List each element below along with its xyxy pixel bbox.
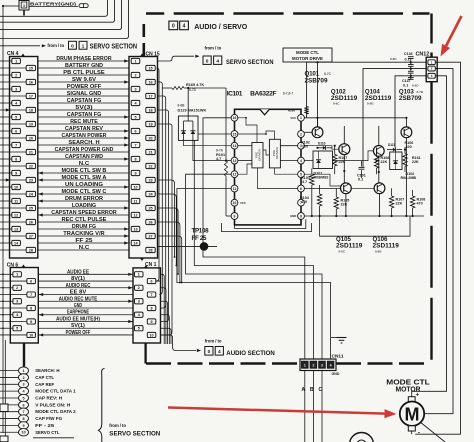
svg-text:SEARCH: H: SEARCH: H (35, 368, 60, 374)
CN6 pin 10 (27, 332, 36, 337)
svg-text:3: 3 (23, 4, 25, 8)
left edge bus wire (2, 6, 4, 433)
CN6 pin 7 (27, 292, 36, 297)
CN15 pin 5 (131, 114, 140, 119)
wire audio row 6: GND (38, 307, 133, 309)
svg-text:13: 13 (233, 159, 237, 163)
svg-text:20: 20 (29, 136, 33, 140)
wire row 26: TRACKING V/R (38, 235, 129, 237)
CN4 pin 13 (12, 226, 21, 231)
svg-text:26: 26 (148, 220, 152, 224)
svg-text:22: 22 (148, 164, 152, 168)
wire row 3: PB CTL PULSE (38, 74, 129, 76)
svg-text:17: 17 (148, 94, 152, 98)
node 9: FF - 25 (0, 424, 19, 426)
output wires to CN12 (307, 62, 428, 118)
svg-text:0: 0 (71, 43, 74, 49)
svg-text:1: 1 (16, 273, 18, 277)
gnd loop wires below U101 (235, 219, 306, 228)
motor M (408, 397, 415, 402)
CN15 pin 7 (131, 142, 140, 147)
svg-text:22K: 22K (339, 160, 346, 164)
CN15 pin 27 (146, 233, 155, 238)
svg-text:DRUM PHASE ERROR: DRUM PHASE ERROR (56, 56, 111, 62)
wire row 8: 5V(3) (38, 109, 129, 111)
svg-text:C: C (319, 387, 323, 393)
svg-text:7: 7 (151, 293, 153, 297)
section label 0 4 AUDIO / SERVO (169, 21, 178, 30)
svg-text:8-8B: 8-8B (367, 102, 374, 106)
svg-text:8-7,8-7: 8-7,8-7 (283, 92, 293, 96)
svg-text:16: 16 (148, 80, 152, 84)
svg-text:5V(1): 5V(1) (71, 323, 85, 329)
vertical Q104-Q106 column (378, 156, 380, 184)
corner pass-through wires (top edge to left edge) (0, 0, 108, 16)
diode block D101 (313, 151, 333, 169)
node 10: SERVO CTL (0, 431, 19, 433)
svg-text:22K: 22K (396, 202, 403, 206)
svg-text:10: 10 (133, 185, 137, 189)
svg-text:0: 0 (172, 24, 175, 30)
svg-text:12: 12 (133, 213, 137, 217)
wire audio row 7: EARPHONE (38, 314, 133, 316)
svg-text:16: 16 (233, 116, 237, 120)
wire to audio section arrow (161, 335, 197, 351)
svg-text:22K: 22K (412, 160, 419, 164)
section border dashed vertical CN15 (143, 24, 146, 57)
svg-text:19: 19 (29, 122, 33, 126)
CN1 pin 10 (147, 332, 156, 337)
U101 pin 3 (298, 142, 305, 149)
svg-text:9: 9 (134, 171, 136, 175)
CN15 pin 10 (131, 184, 140, 189)
wire row 12: CAPSTAN POWER (38, 137, 129, 139)
svg-text:REC MUTE: REC MUTE (70, 119, 98, 125)
CN15 pin 23 (146, 177, 155, 182)
section border dashed bottom (146, 362, 300, 364)
CN15 pin 26 (146, 219, 155, 224)
CN15 pin 6 (131, 128, 140, 133)
capacitor C101 0.1 (361, 161, 363, 167)
svg-text:26: 26 (29, 220, 33, 224)
svg-text:7: 7 (30, 293, 32, 297)
svg-text:18: 18 (148, 108, 152, 112)
CN4 pin 15 (26, 65, 35, 70)
transistor Q104 (373, 146, 384, 157)
wire audio row 9: 5V(1) (38, 327, 133, 329)
wire row 10: REC MUTE (38, 123, 129, 125)
node 3: CAP REF (0, 383, 19, 385)
svg-text:FF 25: FF 25 (75, 238, 92, 244)
svg-text:8: 8 (134, 157, 136, 161)
wire row 4: SW 9.6V (38, 81, 129, 83)
U101 pre-driver block 1 (252, 143, 263, 168)
svg-text:AUDIO REC: AUDIO REC (66, 283, 91, 289)
resistor R167 22K (333, 154, 337, 166)
svg-text:28: 28 (29, 248, 33, 252)
U101 pin 15 (231, 131, 238, 138)
svg-text:GND: GND (332, 372, 340, 376)
wire row 1: DRUM PHASE ERROR (38, 60, 129, 62)
svg-text:MODE CTL: MODE CTL (296, 50, 319, 55)
gnd loop wire below transistor stage (320, 216, 410, 236)
CN1 pin 6 (147, 278, 156, 283)
svg-text:19: 19 (148, 122, 152, 126)
svg-text:DRIVER: DRIVER (275, 146, 279, 158)
resistor R161 22K (403, 154, 407, 167)
svg-text:2: 2 (134, 73, 136, 77)
CN6 pin 4 (13, 312, 22, 317)
svg-text:VCC: VCC (240, 201, 246, 205)
CN4 pin 2 (12, 72, 21, 77)
svg-text:100: 100 (406, 145, 412, 149)
svg-text:10: 10 (233, 201, 237, 205)
CN15 pin 4 (131, 100, 140, 105)
svg-text:4: 4 (183, 24, 186, 30)
svg-text:23: 23 (29, 178, 33, 182)
left edge bus wire 2 (4, 340, 6, 442)
svg-text:SERVO SECTION: SERVO SECTION (226, 59, 274, 66)
svg-text:AUDIO / SERVO: AUDIO / SERVO (194, 22, 247, 31)
resistor R105 22K (334, 197, 338, 209)
wire audio row 10: POWER OFF (38, 334, 133, 336)
svg-text:3: 3 (16, 300, 18, 304)
bus curves from CN1 left-row pins (161, 274, 165, 344)
resistor R107 22K (389, 196, 393, 208)
wire battery gnd net (3, 5, 19, 7)
resistor R108 470 (410, 196, 414, 208)
svg-text:C137: C137 (402, 79, 411, 83)
transistor Q101 (312, 127, 323, 138)
wire row 11: CAPSTAN REV (38, 130, 129, 132)
svg-text:EARPHONE: EARPHONE (67, 310, 90, 316)
svg-text:CAP CTL: CAP CTL (35, 375, 54, 381)
svg-text:13: 13 (14, 227, 18, 231)
CN15 pin 20 (146, 135, 155, 140)
CN15 pin 21 (146, 149, 155, 154)
CN15 pin 16 (146, 79, 155, 84)
svg-text:15: 15 (148, 66, 152, 70)
svg-text:SERVO SECTION: SERVO SECTION (109, 430, 160, 437)
svg-text:8-8D: 8-8D (390, 57, 397, 61)
wire row 23: CAPSTAN SPEED ERROR (38, 214, 129, 216)
svg-text:IC101: IC101 (227, 90, 243, 97)
svg-text:UN LOADING: UN LOADING (65, 182, 103, 188)
wire audio row 8: AUDIO EE MUTE(H) (38, 320, 133, 322)
svg-text:9: 9 (151, 320, 153, 324)
svg-text:3: 3 (138, 300, 140, 304)
svg-text:CAPSTAN SPEED ERROR: CAPSTAN SPEED ERROR (51, 210, 117, 216)
svg-text:SEARCH. H: SEARCH. H (68, 140, 99, 146)
svg-text:20: 20 (148, 136, 152, 140)
U101 internal wires (238, 118, 257, 143)
diode D111 (387, 149, 393, 151)
svg-text:0.1: 0.1 (403, 84, 408, 88)
CN4 pin 10 (12, 184, 21, 189)
wire audio row 3: AUDIO REC (38, 287, 133, 289)
CN6 pin 3 (13, 299, 22, 304)
node 8: CAP F/W FG (0, 418, 19, 420)
svg-text:VCC: VCC (290, 116, 296, 120)
wire row 25: DRUM FG (38, 228, 129, 230)
svg-text:1: 1 (82, 43, 85, 49)
svg-text:LOADING: LOADING (72, 203, 96, 209)
svg-text:R08/M82: R08/M82 (314, 176, 329, 180)
CN4 pin 19 (26, 121, 35, 126)
CN4 pin 4 (12, 100, 21, 105)
wire row 17: MODE CTL SW B (38, 172, 129, 174)
svg-text:7: 7 (134, 143, 136, 147)
CN1 pin 5 (135, 326, 144, 331)
CN1 pin 9 (147, 319, 156, 324)
svg-text:8-8B: 8-8B (375, 249, 382, 253)
svg-text:4.7: 4.7 (302, 180, 307, 184)
wire row 14: CAPSTAN POWER GND (38, 151, 129, 153)
capstan motor (partial, bottom) (350, 433, 374, 442)
wire row 5: POWER OFF (38, 88, 129, 90)
svg-text:SIGNAL GND: SIGNAL GND (67, 91, 102, 97)
svg-text:CAPSTAN FG: CAPSTAN FG (67, 112, 102, 118)
svg-text:8: 8 (22, 417, 24, 421)
svg-text:1: 1 (300, 116, 302, 120)
wire row 13: SEARCH. H (38, 144, 129, 146)
U101 pin 11 (231, 185, 238, 192)
transistor Q102 (339, 144, 350, 155)
svg-text:BATTERY(GND): BATTERY(GND) (30, 1, 77, 6)
svg-text:AUDIO REC MUTE: AUDIO REC MUTE (59, 296, 98, 302)
connector pin 3 (battery) (19, 1, 29, 11)
svg-text:7: 7 (15, 143, 17, 147)
section border below CN1 (144, 343, 146, 364)
svg-text:-: - (418, 430, 420, 437)
svg-text:11: 11 (233, 187, 237, 191)
wires D129 to IC (184, 140, 232, 145)
svg-text:2SB709: 2SB709 (305, 78, 329, 85)
CN4 pin 1 (12, 58, 21, 63)
svg-text:8-8C: 8-8C (339, 249, 346, 253)
svg-text:21: 21 (29, 150, 33, 154)
svg-text:2SB709: 2SB709 (399, 95, 422, 102)
svg-text:2: 2 (15, 73, 17, 77)
CN6 pin 9 (27, 319, 36, 324)
CN4 pin 3 (12, 86, 21, 91)
svg-text:CAPSTAN FWD: CAPSTAN FWD (65, 154, 103, 160)
svg-text:5: 5 (16, 327, 18, 331)
svg-text:8: 8 (300, 214, 302, 218)
svg-text:CAPSTAN FG: CAPSTAN FG (67, 98, 102, 104)
CN4 pin 9 (12, 170, 21, 175)
svg-text:9: 9 (234, 214, 236, 218)
svg-text:TRACKING V/R: TRACKING V/R (63, 231, 104, 237)
svg-text:22: 22 (29, 164, 33, 168)
svg-text:GND: GND (74, 303, 82, 309)
CN4 pin 7 (12, 142, 21, 147)
svg-text:6: 6 (134, 129, 136, 133)
svg-text:16: 16 (29, 80, 33, 84)
U101 pin 2 (298, 131, 305, 138)
svg-text:1: 1 (304, 364, 306, 368)
svg-text:R08.2MB: R08.2MB (401, 176, 417, 180)
wire audio row 1: AUDIO EE (38, 273, 133, 275)
CN4 pin 17 (26, 93, 35, 98)
svg-text:8-7C: 8-7C (324, 72, 332, 76)
svg-text:D110: D110 (318, 142, 326, 146)
svg-text:DRIVER: DRIVER (257, 148, 261, 160)
svg-text:MODE CTL SW A: MODE CTL SW A (62, 175, 107, 181)
CN15 pin 14 (131, 240, 140, 245)
svg-text:25: 25 (29, 206, 33, 210)
wire row 20: MODE CTL SW C (38, 193, 129, 195)
terminal lug (79, 4, 88, 8)
CN15 pin 15 (146, 65, 155, 70)
U101 pin 13 (231, 157, 238, 164)
svg-text:SERVO SECTION: SERVO SECTION (90, 44, 138, 51)
svg-text:11: 11 (14, 199, 18, 203)
brace (98, 369, 104, 442)
CN15 pin 1 (131, 58, 140, 63)
svg-text:EE 8V: EE 8V (70, 290, 87, 296)
resistor R168 22K (374, 157, 378, 168)
capacitor C136 0.1 (410, 59, 412, 63)
CN15 pin 3 (131, 86, 140, 91)
svg-text:MODE CTL DATA 2: MODE CTL DATA 2 (35, 409, 76, 415)
U101 pin 1 (298, 114, 305, 121)
CN4 pin 20 (26, 135, 35, 140)
svg-text:17: 17 (29, 94, 33, 98)
CN15 pin 25 (146, 205, 155, 210)
U101 pin 16 (231, 114, 238, 121)
svg-text:5: 5 (15, 115, 17, 119)
svg-text:FF 25: FF 25 (192, 235, 208, 242)
transistor Q103 (401, 127, 412, 138)
CN4 pin 28 (26, 247, 35, 252)
svg-text:CAPSTAN POWER GND: CAPSTAN POWER GND (55, 147, 114, 153)
wire audio row 4: EE 8V (38, 294, 133, 296)
svg-text:10: 10 (14, 185, 18, 189)
svg-text:5V(3): 5V(3) (75, 105, 92, 111)
svg-text:4: 4 (218, 349, 221, 355)
vertical Q102-Q105 column (343, 154, 345, 183)
svg-text:MOTOR DRIVE: MOTOR DRIVE (292, 56, 323, 61)
wire motor to bottom edge (421, 423, 445, 442)
CN6 pin 2 (13, 285, 22, 290)
node 4: MODE CTL DATA 1 (0, 390, 19, 392)
svg-text:12: 12 (233, 173, 237, 177)
wire row 2: BATTERY GND (38, 67, 129, 69)
svg-text:0.1: 0.1 (358, 178, 363, 182)
svg-text:22K: 22K (381, 160, 388, 164)
svg-text:1: 1 (138, 273, 140, 277)
svg-text:8-6B: 8-6B (178, 104, 186, 108)
CN4 pin 25 (26, 205, 35, 210)
svg-text:8-8C: 8-8C (333, 102, 340, 106)
svg-text:100: 100 (302, 145, 308, 149)
red arrow to CN12 (446, 16, 461, 46)
svg-text:6: 6 (15, 129, 17, 133)
resistor R166 (304, 107, 308, 115)
wire audio row 5: AUDIO REC MUTE (38, 300, 133, 302)
CN15 pin 22 (146, 163, 155, 168)
svg-text:5: 5 (22, 396, 24, 400)
svg-text:CAP F/W FG: CAP F/W FG (35, 416, 62, 422)
CN6 pin 8 (27, 305, 36, 310)
svg-text:3: 3 (22, 383, 24, 387)
svg-text:8-7B: 8-7B (417, 90, 424, 94)
label from/to 0 1 SERVO SECTION (0, 45, 40, 47)
svg-text:9: 9 (15, 171, 17, 175)
U101 pin 10 (231, 199, 238, 206)
svg-text:4: 4 (330, 364, 332, 368)
svg-text:CAPSTAN POWER: CAPSTAN POWER (62, 133, 107, 139)
section border dashed top (146, 12, 430, 14)
svg-text:R166: R166 (288, 109, 296, 113)
svg-text:8V(1): 8V(1) (71, 276, 85, 282)
svg-text:8: 8 (15, 157, 17, 161)
svg-text:D129 MA151WK: D129 MA151WK (178, 109, 207, 113)
CN1 pin 8 (147, 305, 156, 310)
CN1 pin 2 (135, 285, 144, 290)
svg-text:AUDIO EE: AUDIO EE (67, 269, 90, 275)
svg-text:10: 10 (149, 333, 153, 337)
CN1 pin 3 (135, 299, 144, 304)
wire row 18: MODE CTL SW A (38, 179, 129, 181)
U101 pin 7 (298, 199, 305, 206)
CN4 pin 26 (26, 219, 35, 224)
svg-text:6: 6 (151, 279, 153, 283)
CN15 pin 18 (146, 107, 155, 112)
wire row 9: CAPSTAN FG (38, 116, 129, 118)
diode block D102 (390, 152, 402, 170)
U101 pin 4 (298, 157, 305, 164)
CN4 pin 6 (12, 128, 21, 133)
red arrow to motor (168, 408, 385, 414)
CN15 pin 13 (131, 226, 140, 231)
U101 pin 5 (298, 171, 305, 178)
svg-text:6: 6 (300, 187, 302, 191)
CN4 pin 24 (26, 191, 35, 196)
svg-text:N.C: N.C (79, 161, 89, 167)
svg-text:15: 15 (233, 132, 237, 136)
svg-text:2: 2 (22, 376, 24, 380)
svg-text:4: 4 (300, 159, 302, 163)
svg-text:10: 10 (21, 431, 25, 435)
svg-text:5: 5 (134, 115, 136, 119)
svg-text:5: 5 (138, 327, 140, 331)
svg-text:SERVO CTL: SERVO CTL (35, 430, 59, 436)
CN4 pin 18 (26, 107, 35, 112)
svg-text:13: 13 (133, 227, 137, 231)
U101 pin 12 (231, 171, 238, 178)
small connector fragment left edge (0, 404, 8, 412)
svg-text:18: 18 (29, 108, 33, 112)
U101 pin 8 (298, 213, 305, 220)
wire row 15: CAPSTAN FWD (38, 158, 129, 160)
CN4 pin 27 (26, 233, 35, 238)
node 1: SEARCH: H (0, 370, 19, 372)
wire row 27: FF 25 (38, 242, 129, 244)
base wires (304, 131, 312, 133)
CN4 pin 11 (12, 198, 21, 203)
svg-text:SW 9.6V: SW 9.6V (72, 77, 97, 83)
svg-text:from / to: from / to (205, 46, 222, 51)
svg-text:FF - 25: FF - 25 (35, 423, 54, 429)
svg-text:AUDIO SECTION: AUDIO SECTION (226, 350, 275, 357)
svg-text:1: 1 (134, 59, 136, 63)
thick stub below CN6 (23, 343, 25, 367)
svg-text:GND: GND (290, 214, 296, 218)
CN15 pin 19 (146, 121, 155, 126)
svg-text:POWER OFF: POWER OFF (67, 84, 102, 90)
